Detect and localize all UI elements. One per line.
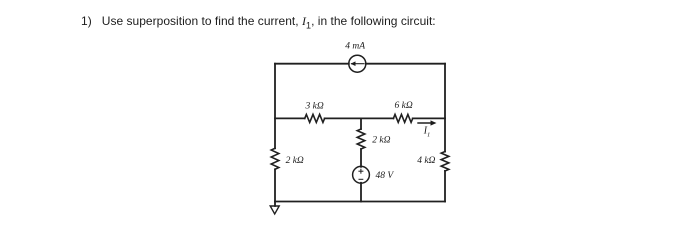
svg-text:2 kΩ: 2 kΩ [372,136,390,146]
svg-text:4 mA: 4 mA [345,42,365,52]
svg-text:1: 1 [427,132,430,139]
svg-text:48 V: 48 V [376,171,395,181]
svg-text:3 kΩ: 3 kΩ [305,102,324,112]
svg-text:4 kΩ: 4 kΩ [417,156,435,166]
svg-text:2 kΩ: 2 kΩ [286,156,304,166]
svg-text:6 kΩ: 6 kΩ [395,101,413,111]
